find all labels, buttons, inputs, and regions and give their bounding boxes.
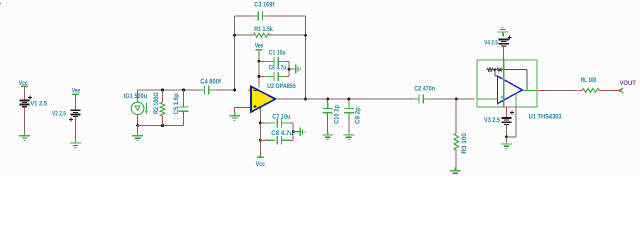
svg-text:C9 2p: C9 2p [355,107,362,124]
svg-text:IG1 500u: IG1 500u [124,93,148,100]
svg-text:Vee: Vee [255,43,264,50]
svg-text:R2 100Ω: R2 100Ω [153,92,160,114]
svg-text:V1 2.5: V1 2.5 [31,100,48,107]
svg-text:U2 OPA855: U2 OPA855 [267,83,296,90]
svg-text:C4 800f: C4 800f [200,78,221,85]
svg-text:U1 THS4303: U1 THS4303 [529,114,562,121]
svg-text:R1 1.5k: R1 1.5k [254,26,273,33]
svg-text:Vcc: Vcc [256,161,266,168]
svg-text:C8 4.7u: C8 4.7u [271,130,293,137]
svg-text:RL 100: RL 100 [581,77,597,84]
svg-text:C6 4.7u: C6 4.7u [269,64,287,71]
svg-text:C5 1.6p: C5 1.6p [173,93,180,114]
svg-text:V3 2.5: V3 2.5 [484,117,500,124]
svg-text:R3 100: R3 100 [461,133,468,154]
svg-text:V4 2.5: V4 2.5 [484,40,498,47]
svg-text:V2 2.5: V2 2.5 [52,110,66,117]
svg-text:C1 10u: C1 10u [269,49,286,56]
svg-text:C3 169f: C3 169f [254,2,275,9]
svg-text:VOUT: VOUT [620,80,636,87]
svg-text:C2 470n: C2 470n [414,86,435,93]
svg-text:C10 2p: C10 2p [333,105,340,124]
